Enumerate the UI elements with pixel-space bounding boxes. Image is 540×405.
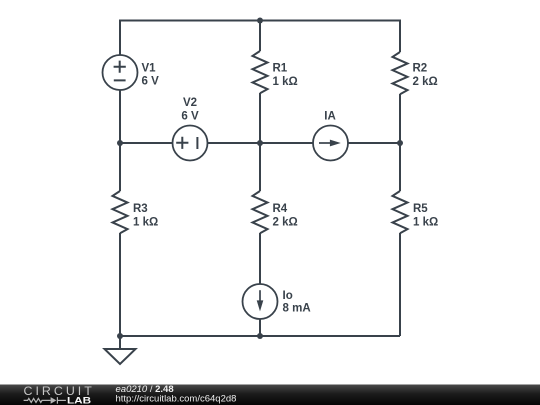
- svg-text:2 kΩ: 2 kΩ: [413, 76, 438, 88]
- svg-text:R3: R3: [133, 203, 148, 215]
- svg-text:6 V: 6 V: [142, 76, 160, 88]
- svg-text:V2: V2: [183, 97, 197, 109]
- svg-text:1 kΩ: 1 kΩ: [133, 216, 158, 228]
- svg-text:R1: R1: [273, 63, 288, 75]
- svg-text:http://circuitlab.com/c64q2d8: http://circuitlab.com/c64q2d8: [116, 393, 237, 404]
- svg-text:R2: R2: [413, 63, 428, 75]
- svg-text:IA: IA: [324, 111, 336, 123]
- svg-text:6 V: 6 V: [181, 111, 199, 123]
- svg-text:2 kΩ: 2 kΩ: [273, 216, 298, 228]
- svg-text:1 kΩ: 1 kΩ: [413, 216, 438, 228]
- svg-text:R5: R5: [413, 203, 428, 215]
- svg-text:R4: R4: [273, 203, 288, 215]
- svg-text:8 mA: 8 mA: [283, 303, 311, 315]
- svg-text:V1: V1: [142, 63, 157, 75]
- svg-text:LAB: LAB: [67, 396, 91, 405]
- svg-text:Io: Io: [283, 290, 293, 302]
- svg-text:1 kΩ: 1 kΩ: [273, 76, 298, 88]
